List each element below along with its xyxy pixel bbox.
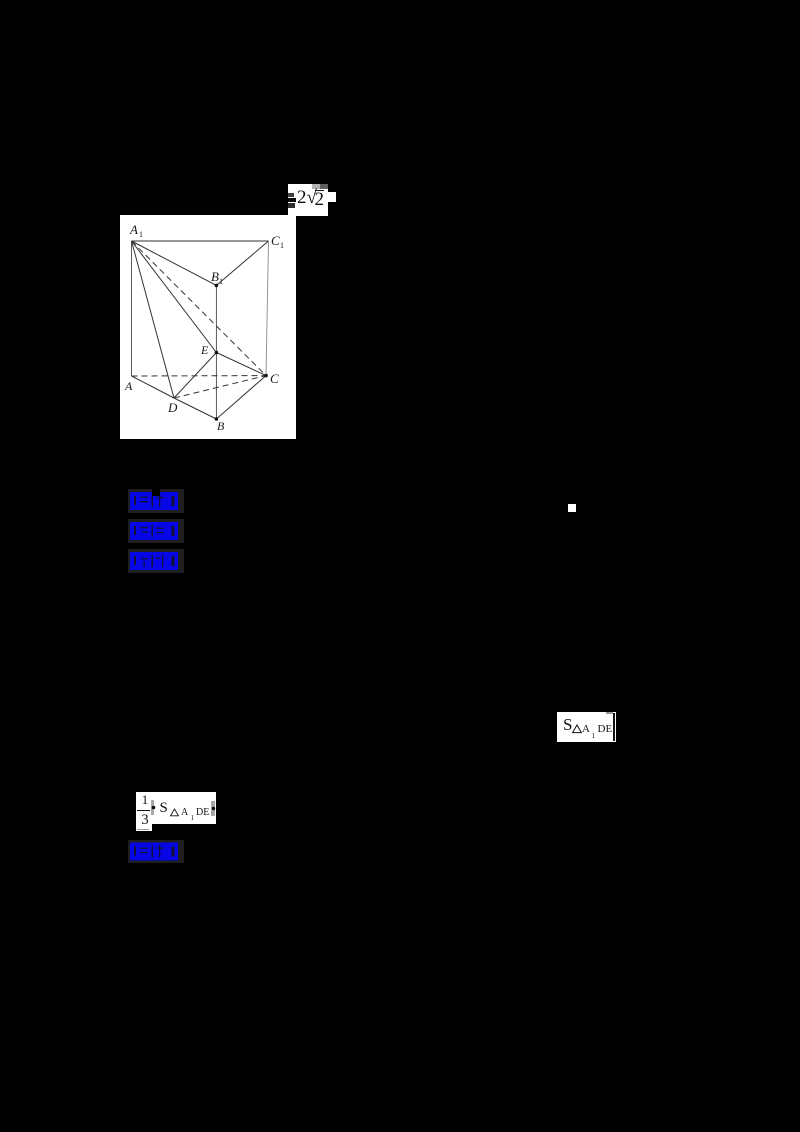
small white square [568, 504, 576, 512]
fraction numerator 1 [139, 793, 151, 807]
formula patch right tab [328, 192, 336, 202]
svg-text:B: B [211, 269, 219, 284]
edge DB [174, 398, 216, 419]
segment DE [174, 353, 216, 399]
cdot 2 [211, 806, 216, 811]
caret bar right [613, 713, 615, 741]
patch lower-left tab [136, 824, 152, 831]
caret gray block light [312, 184, 320, 189]
cdot 1 [151, 805, 156, 810]
segment EC [216, 353, 266, 376]
triangle symbol [170, 808, 179, 817]
gray caret bar 1 [151, 800, 154, 815]
dashed segment A1C [132, 241, 267, 376]
svg-text:C: C [270, 371, 279, 386]
formula patch (1/3)S_triangle A1DE [136, 792, 216, 824]
svg-text:E: E [200, 343, 209, 357]
svg-text:C: C [271, 233, 280, 248]
edge B1C1 [216, 241, 268, 285]
fraction bar [137, 810, 150, 811]
edge AD [132, 376, 175, 398]
text S [160, 800, 168, 816]
dashed segment DC [174, 376, 266, 398]
segment A1E [132, 241, 217, 353]
fraction denominator 3 [139, 813, 151, 828]
blue tag 2 [zhuanti] [128, 519, 184, 543]
figure box: triangular prism ABC-A1B1C1 [120, 215, 296, 439]
subscript A1DE [582, 724, 590, 735]
svg-text:D: D [167, 400, 178, 415]
edge BB1 [215, 285, 217, 419]
tab gray line [137, 829, 149, 830]
dot B [215, 417, 219, 421]
caret gray block dark [320, 184, 328, 189]
equals sign fragment bottom [288, 203, 295, 208]
svg-text:A: A [129, 222, 138, 237]
dot B1 [215, 284, 219, 288]
radicand 2 with vinculum [315, 190, 325, 208]
edge AA1 [131, 241, 133, 376]
dot C [264, 374, 268, 378]
triangle symbol [572, 724, 582, 734]
edge BC [216, 376, 266, 419]
subscript A1DE [181, 808, 188, 818]
svg-text:1: 1 [139, 230, 143, 239]
text S [563, 716, 572, 734]
blue tag 4 [dianping] [128, 840, 184, 863]
equals sign fragment top [288, 193, 294, 197]
svg-text:A: A [124, 379, 133, 393]
gray caret bar 2 [211, 801, 215, 816]
dashed edge AC [132, 375, 267, 377]
segment A1D [132, 241, 175, 398]
formula patch =2&radic;2 [288, 184, 328, 216]
svg-text:1: 1 [219, 277, 223, 286]
equals sign fragment mid [288, 198, 296, 202]
edge CC1 [266, 241, 269, 376]
formula patch S_triangle A1DE [557, 712, 616, 742]
svg-text:1: 1 [280, 241, 284, 250]
edge A1C1 [132, 240, 269, 242]
gray strip top [606, 712, 613, 714]
edge A1B1 [132, 241, 217, 285]
blue tag 3 [fenxi] [128, 549, 184, 573]
svg-text:B: B [217, 419, 225, 433]
blue tag 1 [kaodian] [128, 489, 184, 513]
text 2√2 [297, 187, 317, 209]
dot E [215, 351, 219, 355]
